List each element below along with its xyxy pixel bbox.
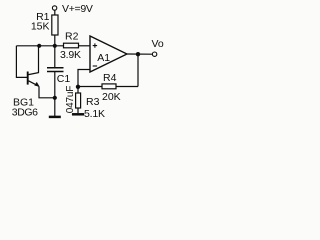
svg-text:V+=9V: V+=9V [62, 3, 93, 15]
transistor Q1 collector [29, 46, 39, 75]
junction output node [136, 52, 140, 56]
wire base feedback [16, 46, 27, 78]
junction node F [76, 85, 80, 89]
svg-text:5.1K: 5.1K [84, 108, 105, 120]
wire node F to R3 [77, 87, 79, 94]
svg-text:.047uF: .047uF [65, 86, 76, 116]
svg-text:R2: R2 [65, 30, 79, 42]
ground under R3 [72, 113, 84, 116]
capacitor C1 [47, 67, 64, 69]
svg-text:Vo: Vo [152, 38, 164, 50]
wire op-amp output [127, 53, 152, 55]
wire V+ to R1 [54, 10, 56, 15]
transistor Q1 emitter arrow [34, 82, 39, 87]
svg-text:3.9K: 3.9K [60, 49, 81, 61]
op-amp minus sign [93, 65, 97, 67]
resistor R1 [52, 15, 58, 35]
svg-text:C1: C1 [57, 73, 71, 85]
junction collector node [37, 44, 41, 48]
svg-text:20K: 20K [102, 91, 121, 103]
terminal Vo [152, 52, 156, 56]
transistor Q1 base bar [27, 72, 29, 85]
wire emitter to ground node [39, 87, 55, 98]
wire output to feedback [137, 54, 139, 86]
wire C1 to ground [54, 72, 56, 117]
wire R4 right [116, 86, 138, 88]
junction node B [53, 44, 57, 48]
wire node F to op-amp - input [78, 70, 90, 87]
wire top rail [16, 45, 63, 47]
wire node B to C1 [54, 46, 56, 68]
svg-text:3DG6: 3DG6 [12, 107, 38, 119]
wire R3 to ground [77, 108, 79, 113]
wire R2 to op-amp + input [79, 45, 91, 47]
svg-text:R4: R4 [103, 72, 117, 84]
ground under C1 [49, 116, 61, 119]
op-amp A1 [90, 36, 127, 72]
svg-text:15K: 15K [31, 20, 50, 32]
transistor Q1 emitter [29, 81, 39, 86]
svg-text:R3: R3 [86, 96, 100, 108]
wire R4 left to node F [78, 86, 102, 88]
op-amp plus sign [93, 43, 97, 47]
resistor R2 [64, 43, 79, 48]
svg-text:A1: A1 [97, 52, 110, 64]
resistor R3 [76, 93, 81, 108]
resistor R4 [102, 84, 116, 89]
junction emitter/C1 node [53, 96, 57, 100]
wire R1 to node B [54, 35, 56, 46]
terminal V+ [52, 6, 56, 10]
